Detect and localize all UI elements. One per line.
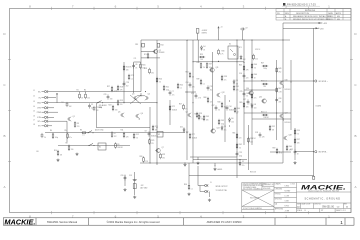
svg-text:SWA1501 Service Manual: SWA1501 Service Manual (47, 220, 78, 224)
capacitor C14 (226, 105, 229, 110)
svg-text:22K: 22K (145, 161, 148, 163)
wire lower bus 1 (45, 132, 185, 134)
transistor Q14 (248, 91, 253, 95)
svg-text:220: 220 (239, 137, 242, 139)
capacitor C1 (88, 103, 91, 108)
svg-text:100p: 100p (239, 155, 243, 157)
resistor R78 (160, 153, 162, 159)
svg-text:R72: R72 (172, 106, 175, 108)
wire (140, 61, 142, 64)
resistor R14 (157, 43, 160, 47)
arrow -rail (316, 27, 318, 29)
svg-text:CHG: CHG (37, 108, 42, 110)
wire speaker feed vert (313, 28, 315, 176)
resistor R58 (248, 137, 250, 143)
resistor R68 (207, 97, 209, 103)
resistor R48 (251, 93, 253, 99)
fuse F1 (196, 29, 199, 34)
wire alt gnd drop (134, 172, 136, 195)
svg-text:SPKR OUTPUT: SPKR OUTPUT (216, 186, 228, 188)
resistor R37 (206, 62, 208, 68)
junction (214, 165, 215, 166)
svg-text:D5: D5 (236, 80, 238, 82)
svg-text:10K: 10K (126, 69, 129, 71)
svg-text:C19: C19 (129, 175, 132, 177)
svg-text:R70: R70 (144, 54, 147, 56)
resistor R18 (117, 85, 119, 91)
svg-text:Q8: Q8 (186, 112, 188, 114)
wire vert rail x283 (282, 23, 284, 163)
svg-text:R1: R1 (77, 89, 79, 91)
wire output col (290, 60, 292, 130)
resistor R64 (189, 72, 191, 78)
capacitor C17 (247, 99, 250, 104)
junction (236, 61, 237, 62)
wire vert x124 (123, 62, 125, 103)
svg-text:SCHEMATIC, GROUND: SCHEMATIC, GROUND (304, 197, 340, 200)
transistor Q13 (210, 129, 215, 133)
resistor R51 (262, 114, 268, 116)
capacitor C24 (189, 82, 192, 87)
svg-text:C31: C31 (61, 102, 64, 104)
svg-text:A: A (3, 185, 5, 189)
wire (42, 107, 45, 109)
jumper JU4 (89, 143, 93, 145)
svg-text:D.LEE: D.LEE (285, 196, 289, 198)
svg-text:R18: R18 (120, 87, 123, 89)
svg-text:NO REVS: NO REVS (250, 198, 260, 200)
resistor R52 (269, 125, 271, 131)
junction (184, 162, 185, 163)
svg-text:SP+: SP+ (38, 121, 41, 123)
svg-text:0.1: 0.1 (191, 188, 193, 190)
svg-text:22K: 22K (192, 86, 195, 88)
connector J11 (205, 190, 209, 193)
wire (42, 97, 45, 99)
svg-text:J8: J8 (33, 124, 35, 126)
junction (313, 151, 314, 152)
resistor R61 (236, 133, 238, 139)
svg-text:RF ENG: RF ENG (275, 194, 282, 196)
capacitor C6 (132, 63, 135, 68)
resistor R39 (200, 79, 202, 85)
svg-text:10K: 10K (199, 116, 202, 118)
svg-text:R36: R36 (197, 62, 200, 64)
svg-text:Q17: Q17 (285, 113, 288, 115)
svg-text:1K: 1K (135, 67, 137, 69)
resistor R30 (218, 49, 220, 55)
connector J8 (44, 125, 48, 128)
svg-text:R67: R67 (279, 88, 282, 90)
svg-text:1N4148: 1N4148 (151, 135, 156, 137)
svg-text:R13: R13 (135, 44, 138, 46)
svg-text:R71: R71 (131, 75, 134, 77)
svg-text:Q1: Q1 (73, 116, 75, 118)
svg-text:U2: U2 (158, 134, 160, 136)
svg-text:47u: 47u (254, 97, 257, 99)
svg-text:R76 1K: R76 1K (255, 49, 260, 51)
svg-text:R52: R52 (272, 126, 275, 128)
junction (186, 91, 187, 92)
capacitor C19 (133, 178, 137, 180)
resistor R5 (67, 133, 69, 139)
wire conn drop x67 (66, 121, 68, 142)
wire (242, 30, 244, 40)
wire (42, 111, 45, 113)
svg-text:R75: R75 (239, 47, 242, 49)
svg-text:C14: C14 (229, 106, 232, 108)
junction (145, 91, 146, 92)
wire vert x276 (276, 60, 278, 140)
transistor Q8 (187, 113, 191, 117)
svg-text:100p: 100p (166, 89, 170, 91)
resistor R44 (234, 107, 236, 113)
svg-text:Q13: Q13 (217, 128, 220, 130)
junction (243, 62, 244, 63)
svg-text:47u: 47u (224, 79, 227, 81)
resistor R26 (143, 156, 145, 162)
wire vert x157 (156, 40, 158, 165)
svg-text:47K: 47K (279, 101, 282, 103)
svg-text:2K2: 2K2 (114, 136, 117, 138)
svg-text:10K: 10K (246, 106, 249, 108)
svg-text:0.1: 0.1 (131, 78, 133, 80)
svg-text:2K2: 2K2 (126, 85, 129, 87)
wire bottom node b (193, 159, 247, 161)
svg-text:22K: 22K (126, 136, 129, 138)
svg-text:100p: 100p (221, 123, 225, 125)
svg-text:R77: R77 (192, 134, 195, 136)
svg-text:R22: R22 (180, 85, 183, 87)
relay K1 (98, 143, 106, 150)
wire output stage top (244, 80, 314, 82)
arrow +rail (319, 22, 321, 24)
resistor R60 (286, 145, 288, 151)
test point TP1 (56, 93, 58, 95)
svg-text:R43: R43 (206, 116, 209, 118)
transistor Q15 (261, 99, 266, 103)
wire tp stub (56, 95, 58, 103)
svg-text:R25: R25 (151, 140, 154, 142)
svg-text:R63 10K: R63 10K (250, 172, 256, 174)
connector J6 (44, 116, 48, 119)
wire (218, 28, 220, 40)
capacitor C20 (124, 175, 127, 180)
wire drop x189 (188, 163, 190, 184)
svg-text:R45: R45 (239, 65, 242, 67)
svg-text:330: 330 (263, 86, 266, 88)
svg-text:WT: WT (321, 210, 323, 212)
svg-text:R14: R14 (161, 45, 164, 47)
wire vert x133 (133, 62, 135, 93)
svg-text:R.FOX: R.FOX (285, 206, 290, 208)
svg-text:47K: 47K (120, 89, 123, 91)
diode D5 (233, 79, 235, 84)
wire (214, 163, 216, 166)
svg-text:C8: C8 (145, 131, 147, 133)
svg-text:R57: R57 (297, 139, 300, 141)
svg-text:R21: R21 (166, 87, 169, 89)
resistor R8 (68, 145, 70, 151)
svg-text:REVISIONS: REVISIONS (305, 10, 316, 12)
capacitor C29 (107, 94, 110, 99)
title block (242, 183, 351, 213)
wire (185, 91, 196, 93)
svg-text:APPD: APPD (336, 12, 342, 15)
svg-text:R20: R20 (159, 79, 162, 81)
capacitor C26 (275, 97, 278, 102)
svg-text:Q6: Q6 (141, 113, 143, 115)
wire vert rail x237 (236, 40, 238, 178)
wire vert x141 (140, 40, 142, 92)
svg-text:GND: GND (37, 103, 42, 105)
connector J5 (44, 111, 48, 114)
wire (42, 125, 45, 127)
resistor R50 (262, 83, 268, 85)
resistor R6 (81, 132, 87, 134)
svg-text:J5: J5 (33, 110, 35, 112)
resistor R4 (52, 133, 54, 139)
wire (42, 116, 45, 118)
junction (236, 39, 237, 40)
svg-text:100: 100 (254, 107, 257, 109)
svg-text:100p: 100p (263, 68, 267, 70)
junction (139, 118, 140, 119)
transistor Q1 (67, 117, 71, 121)
capacitor C18 (259, 132, 262, 137)
svg-text:RELEASED PER ECN 03-117 INITIA: RELEASED PER ECN 03-117 INITIAL PROD (293, 15, 332, 18)
wire box edge x198 (197, 40, 199, 62)
svg-text:R62: R62 (239, 144, 242, 146)
svg-text:REV: REV (344, 203, 347, 205)
svg-text:R2: R2 (84, 89, 86, 91)
ground (123, 188, 126, 191)
part number label above frame (283, 3, 285, 6)
svg-text:J7: J7 (33, 119, 35, 121)
resistor R73 (152, 125, 154, 131)
wire (66, 102, 68, 104)
diode D6 (228, 117, 230, 122)
svg-text:R7: R7 (114, 133, 116, 135)
resistor R3 (74, 121, 76, 127)
junction (102, 102, 103, 103)
svg-text:47u: 47u (242, 165, 245, 167)
svg-text:220: 220 (210, 101, 213, 103)
junction (156, 102, 157, 103)
svg-text:220: 220 (246, 77, 249, 79)
wire vert x295 (294, 128, 296, 160)
svg-text:Q5: Q5 (118, 112, 120, 114)
svg-text:SP-: SP- (38, 126, 41, 128)
junction (212, 129, 213, 130)
junction (236, 112, 237, 113)
resistor R21 (163, 85, 165, 91)
svg-text:MACKIE.: MACKIE. (4, 217, 35, 226)
svg-text:CHECKED: CHECKED (275, 189, 283, 191)
svg-text:4.7K: 4.7K (279, 91, 282, 93)
svg-text:47K: 47K (96, 110, 99, 112)
svg-text:2K2: 2K2 (162, 157, 165, 159)
resistor R19 (117, 100, 119, 106)
junction (282, 80, 283, 81)
resistor R22 (177, 83, 179, 89)
svg-text:R60: R60 (289, 146, 292, 148)
junction (97, 102, 98, 103)
svg-text:2K2: 2K2 (279, 71, 282, 73)
svg-text:22K: 22K (262, 136, 265, 138)
svg-text:2K2: 2K2 (151, 72, 154, 74)
svg-text:+B: +B (221, 27, 223, 29)
junction (276, 112, 277, 113)
svg-text:Q11: Q11 (216, 67, 219, 69)
wire (48, 125, 52, 127)
wire (134, 61, 141, 63)
jumper JU3 (88, 131, 92, 133)
svg-text:R30: R30 (222, 51, 225, 53)
base cross wires (130, 95, 141, 104)
junction (239, 159, 240, 160)
svg-text:R42: R42 (195, 114, 198, 116)
svg-text:AMPLIFIER PC ASSY 033500: AMPLIFIER PC ASSY 033500 (207, 220, 242, 224)
svg-text:4.7K: 4.7K (220, 53, 223, 55)
svg-text:MFG ENG: MFG ENG (275, 199, 283, 201)
jumper JU1 (98, 101, 102, 103)
svg-text:R12: R12 (136, 134, 139, 136)
svg-text:R59: R59 (273, 148, 276, 150)
footer strip (3, 218, 354, 225)
resistor R67 (276, 87, 278, 93)
resistor R77 (189, 133, 191, 139)
svg-text:C24: C24 (186, 82, 189, 84)
resistor R15 (123, 65, 125, 71)
resistor R45 (243, 65, 245, 71)
junction (123, 102, 124, 103)
capacitor C2 (93, 106, 96, 111)
svg-text:R56: R56 (184, 184, 187, 186)
svg-text:C26: C26 (279, 98, 282, 100)
svg-text:0.1: 0.1 (82, 135, 84, 137)
wire vert rail x193 (192, 40, 194, 163)
svg-text:47u: 47u (69, 137, 72, 139)
resistor R17 (111, 86, 113, 92)
resistor R56 (188, 184, 190, 190)
wire conn feed x198 (197, 166, 199, 186)
capacitor C8 (148, 131, 151, 136)
junction (251, 39, 252, 40)
transistor Q18 (283, 136, 287, 140)
svg-text:C27: C27 (212, 105, 215, 107)
wire vert x150b (149, 107, 151, 163)
svg-text:MG: MG (337, 19, 341, 21)
wire bottom node a (190, 156, 237, 158)
diode D10 (240, 55, 242, 60)
svg-text:C6: C6 (135, 64, 137, 66)
wire -rail feed 2 (283, 27, 318, 29)
resistor R62 (236, 143, 238, 149)
svg-text:Q12: Q12 (222, 92, 225, 94)
svg-text:W2 SPKR -: W2 SPKR - (319, 152, 328, 154)
svg-text:W1 SPKR +: W1 SPKR + (319, 81, 328, 83)
svg-text:C29: C29 (104, 94, 107, 96)
svg-text:1N4148: 1N4148 (172, 109, 177, 111)
svg-text:D4: D4 (203, 46, 205, 48)
terminal lug (312, 176, 314, 179)
svg-text:R51 0.1: R51 0.1 (261, 112, 267, 114)
junction (251, 89, 252, 90)
wire return rail (189, 174, 314, 176)
svg-text:4.7K: 4.7K (198, 97, 201, 99)
svg-text:Q4: Q4 (148, 94, 150, 96)
junction (243, 80, 244, 81)
revision table (276, 9, 351, 21)
connector J1 (44, 90, 48, 93)
svg-text:R8: R8 (66, 143, 68, 145)
ground (133, 196, 136, 199)
terminal W2 (315, 151, 317, 153)
svg-text:Q3: Q3 (132, 94, 134, 96)
transistor Q6 (135, 114, 139, 118)
wire (209, 192, 211, 198)
svg-text:R23: R23 (144, 68, 147, 70)
wire driver low (270, 151, 291, 153)
wire gnd stub x198 (197, 157, 199, 160)
svg-text:MJ15004: MJ15004 (285, 122, 291, 124)
svg-text:47u: 47u (172, 94, 175, 96)
svg-text:MACKIE.: MACKIE. (301, 185, 347, 191)
svg-text:330: 330 (110, 98, 113, 100)
transistor Q5 (120, 113, 124, 117)
wire vert x244 (243, 40, 245, 63)
svg-text:R69: R69 (221, 120, 224, 122)
connector J3 (44, 101, 48, 104)
svg-text:Q18: Q18 (289, 135, 292, 137)
svg-text:SW 051 00: SW 051 00 (322, 206, 334, 209)
wire (140, 93, 142, 96)
svg-text:47K: 47K (243, 59, 246, 61)
svg-text:REVISED PER ECN 03-142 UPDATE: REVISED PER ECN 03-142 UPDATE VALS (293, 18, 331, 21)
resistor R36 (200, 62, 202, 68)
junction (156, 162, 157, 163)
capacitor C23 (236, 151, 239, 156)
wire vas out (224, 95, 226, 142)
svg-text:R16: R16 (142, 65, 145, 67)
capacitor C30 (41, 133, 44, 138)
svg-text:©2002 Mackie Designs Inc. All: ©2002 Mackie Designs Inc. All rights res… (107, 220, 161, 224)
svg-text:R4: R4 (50, 130, 52, 132)
junction (140, 95, 141, 96)
junction (218, 61, 219, 62)
svg-text:Q7: Q7 (162, 147, 164, 149)
svg-text:10K: 10K (206, 119, 209, 121)
junction (229, 100, 230, 101)
resistor R20 (156, 77, 158, 83)
transistor Q11 (209, 68, 214, 72)
svg-text:R3: R3 (77, 123, 79, 125)
svg-text:K2: K2 (229, 44, 231, 46)
svg-text:PWR: PWR (37, 112, 42, 114)
resistor R71 (128, 74, 130, 80)
svg-text:Q2: Q2 (159, 50, 161, 52)
svg-text:1N4148: 1N4148 (229, 109, 234, 111)
svg-text:B: B (3, 134, 5, 138)
svg-text:330: 330 (71, 149, 74, 151)
wire vert x252 (251, 40, 253, 145)
svg-text:1N4148: 1N4148 (117, 147, 122, 149)
svg-text:R41: R41 (236, 86, 239, 88)
junction (156, 127, 157, 128)
svg-text:J10: J10 (36, 151, 39, 153)
capacitor C22 (294, 149, 297, 154)
